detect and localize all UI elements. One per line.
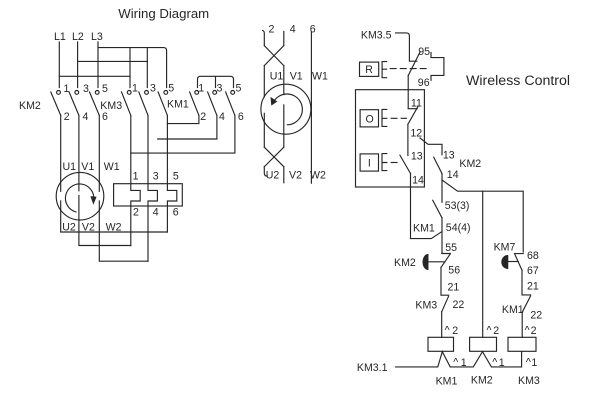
svg-text:KM1: KM1	[502, 304, 524, 316]
svg-text:1: 1	[132, 83, 138, 95]
svg-text:W2: W2	[310, 169, 326, 181]
svg-text:68: 68	[527, 250, 539, 262]
svg-text:1: 1	[198, 83, 204, 95]
svg-text:^: ^	[453, 356, 458, 368]
svg-text:Wiring Diagram: Wiring Diagram	[118, 6, 209, 21]
svg-text:4: 4	[83, 111, 89, 123]
svg-text:96: 96	[418, 77, 430, 89]
svg-text:KM2: KM2	[459, 158, 481, 170]
svg-text:21: 21	[527, 281, 539, 293]
svg-text:O: O	[366, 113, 374, 125]
svg-text:2: 2	[133, 207, 139, 219]
svg-text:22: 22	[530, 310, 542, 322]
svg-text:KM1: KM1	[413, 223, 435, 235]
svg-text:KM3: KM3	[415, 300, 437, 312]
svg-text:U1: U1	[63, 161, 77, 173]
svg-text:6: 6	[102, 111, 108, 123]
svg-text:53(3): 53(3)	[445, 200, 470, 212]
svg-text:L2: L2	[72, 31, 84, 43]
svg-text:Wireless Control: Wireless Control	[466, 73, 570, 89]
svg-text:95: 95	[418, 46, 430, 58]
svg-text:KM3.1: KM3.1	[357, 362, 388, 374]
svg-text:2: 2	[269, 24, 275, 36]
svg-text:1: 1	[64, 83, 70, 95]
svg-text:13: 13	[411, 150, 423, 162]
svg-text:V2: V2	[82, 222, 95, 234]
svg-text:L3: L3	[91, 31, 103, 43]
svg-text:1: 1	[461, 357, 467, 369]
svg-text:KM3: KM3	[518, 375, 540, 387]
svg-text:^: ^	[526, 356, 531, 368]
svg-text:2: 2	[493, 325, 499, 337]
svg-text:6: 6	[238, 111, 244, 123]
svg-text:^: ^	[445, 324, 450, 336]
svg-text:2: 2	[64, 111, 70, 123]
svg-text:54(4): 54(4)	[446, 222, 471, 234]
svg-text:6: 6	[173, 207, 179, 219]
svg-text:KM2: KM2	[471, 375, 493, 387]
svg-text:W2: W2	[106, 222, 122, 234]
svg-text:R: R	[365, 64, 373, 76]
svg-text:5: 5	[168, 83, 174, 95]
svg-text:3: 3	[153, 171, 159, 183]
svg-text:6: 6	[310, 24, 316, 36]
svg-text:14: 14	[412, 174, 424, 186]
svg-text:22: 22	[453, 299, 465, 311]
svg-text:5: 5	[173, 171, 179, 183]
svg-text:2: 2	[452, 325, 458, 337]
svg-text:14: 14	[447, 169, 459, 181]
svg-text:KM7: KM7	[494, 241, 516, 253]
svg-text:2: 2	[531, 325, 537, 337]
svg-text:U2: U2	[266, 169, 280, 181]
svg-text:KM1: KM1	[167, 99, 189, 111]
svg-text:I: I	[368, 158, 371, 170]
svg-text:1: 1	[531, 357, 537, 369]
svg-text:V1: V1	[290, 71, 303, 83]
svg-text:2: 2	[200, 111, 206, 123]
svg-text:56: 56	[448, 265, 460, 277]
svg-text:1: 1	[133, 171, 139, 183]
svg-text:KM3.5: KM3.5	[361, 30, 392, 42]
svg-text:V2: V2	[289, 169, 302, 181]
svg-text:U2: U2	[62, 222, 76, 234]
svg-text:V1: V1	[81, 161, 94, 173]
svg-text:KM2: KM2	[19, 100, 41, 112]
svg-text:5: 5	[236, 83, 242, 95]
svg-text:U1: U1	[270, 71, 284, 83]
svg-text:12: 12	[410, 128, 422, 140]
svg-text:21: 21	[448, 282, 460, 294]
svg-text:W1: W1	[312, 71, 328, 83]
svg-text:KM1: KM1	[436, 375, 458, 387]
svg-text:^: ^	[492, 356, 497, 368]
svg-text:11: 11	[411, 97, 422, 109]
svg-text:^: ^	[487, 324, 492, 336]
svg-text:4: 4	[219, 111, 225, 123]
svg-text:W1: W1	[104, 161, 120, 173]
svg-text:3: 3	[217, 83, 223, 95]
svg-text:5: 5	[102, 83, 108, 95]
svg-text:L1: L1	[54, 31, 66, 43]
svg-text:1: 1	[499, 357, 505, 369]
svg-text:55: 55	[445, 242, 457, 254]
svg-text:13: 13	[443, 150, 455, 162]
svg-text:^: ^	[525, 324, 530, 336]
svg-text:3: 3	[150, 83, 156, 95]
svg-text:KM2: KM2	[394, 257, 416, 269]
svg-text:3: 3	[83, 83, 89, 95]
svg-text:4: 4	[290, 24, 296, 36]
svg-text:4: 4	[153, 207, 159, 219]
svg-text:67: 67	[527, 265, 539, 277]
